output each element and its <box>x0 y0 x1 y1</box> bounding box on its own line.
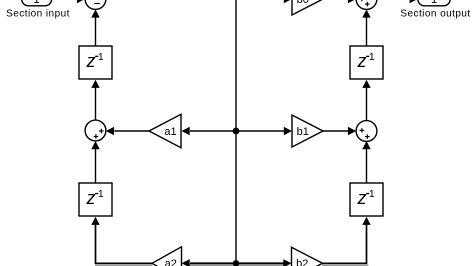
svg-text:Section output: Section output <box>400 9 470 20</box>
wire node W to a1 input <box>190 130 236 132</box>
outport block 1 (Section output) <box>418 0 450 6</box>
svg-text:b2: b2 <box>296 258 308 266</box>
svg-text:1: 1 <box>431 0 437 6</box>
svg-text:a1: a1 <box>164 126 176 138</box>
sum Sum4 (top right, ++) <box>356 0 377 9</box>
svg-text:z: z <box>86 188 96 208</box>
sign plus in Sum3 (left input) <box>360 129 365 131</box>
wire Z3 output up to Sum4 <box>366 17 368 46</box>
arrowhead into a1 input (base) <box>182 127 190 135</box>
arrowhead into Sum4 from b0 <box>348 0 356 3</box>
wire shadow band (bottom bus gray remnant) <box>95 264 153 266</box>
value label z^-1 in Z1 <box>86 51 104 71</box>
wire Z4 output up to Sum3 <box>366 149 368 183</box>
wire Z2 output up to Sum2 <box>95 149 97 183</box>
wire Sum3 output up to Z3 input <box>366 88 368 121</box>
wire node W to b1 input <box>236 130 284 132</box>
arrowhead into Sum2 from Z2 below <box>91 141 99 149</box>
arrowhead into a2 input (base) <box>182 259 190 266</box>
value label z^-1 in Z2 <box>86 188 104 208</box>
svg-text:b0: b0 <box>297 0 309 6</box>
sum Sum3 (right middle, ++) <box>356 121 377 142</box>
arrowhead into Sum1 from Z1 below <box>91 9 99 17</box>
wire Sum2 output up to Z1 input <box>95 88 97 121</box>
svg-text:Section input: Section input <box>6 9 70 20</box>
gain a2 (left-pointing triangle, bottom) <box>152 247 182 266</box>
inport block 1 (Section input) <box>22 0 52 6</box>
sign plus in Sum3 (bottom input) <box>365 136 370 138</box>
sign minus in Sum1 (bottom input) <box>94 3 100 5</box>
svg-text:z: z <box>357 51 367 71</box>
wire bottom node to a2 input <box>190 262 236 264</box>
sign plus in Sum4 (left input) <box>360 0 365 1</box>
svg-text:1: 1 <box>369 51 375 63</box>
svg-text:1: 1 <box>34 0 40 6</box>
svg-text:1: 1 <box>369 188 375 200</box>
arrowhead into Sum3 from Z4 below <box>362 141 370 149</box>
value label z^-1 in Z4 <box>357 188 375 208</box>
arrowhead into Z3 input (bottom) <box>362 80 370 88</box>
sum Sum1 (top left, +|-) <box>85 0 106 9</box>
node W junction dot (middle) <box>233 128 240 135</box>
value label z^-1 in Z3 <box>357 51 375 71</box>
unit delay Z2 (left lower z^-1) <box>79 183 112 216</box>
arrowhead into Z2 input (bottom) <box>91 217 99 225</box>
bottom node junction dot <box>233 260 239 266</box>
arrowhead into Sum1 from inport <box>77 0 85 3</box>
wire a2 output left and up to Z2 input <box>96 225 153 264</box>
wire node W main vertical line <box>235 0 237 263</box>
sign plus in Sum2 (right input) <box>99 130 104 132</box>
arrowhead into Sum4 from Z3 below <box>362 9 370 17</box>
arrowhead into Sum2 from a1 (right) <box>106 127 114 135</box>
wire b2 output right and up to Z4 input <box>323 225 367 264</box>
sign plus in Sum2 (bottom input) <box>94 136 99 138</box>
arrowhead into Z1 input (bottom) <box>91 80 99 88</box>
unit delay Z1 (left upper z^-1) <box>79 46 112 79</box>
svg-text:z: z <box>86 51 96 71</box>
wire Z1 output up to Sum1 <box>95 17 97 46</box>
arrowhead into Sum3 from b1 <box>348 127 356 135</box>
wire bottom node to b2 input <box>236 262 284 264</box>
gain b1 (right-pointing triangle) <box>292 115 323 147</box>
svg-text:a2: a2 <box>165 258 177 266</box>
sign plus in Sum4 (bottom input) <box>365 3 370 5</box>
gain b2 (right-pointing triangle, bottom) <box>292 247 323 266</box>
svg-text:z: z <box>357 188 367 208</box>
sum Sum2 (left middle, ++) <box>85 120 106 141</box>
arrowhead into b0 input (base) <box>284 0 292 3</box>
svg-text:1: 1 <box>98 188 104 200</box>
arrowhead into b2 input (base) <box>283 259 291 266</box>
arrowhead into b1 input (base) <box>284 127 292 135</box>
wire a1 output to Sum2 <box>114 130 149 132</box>
arrowhead into outport <box>410 0 418 3</box>
wire b1 output to Sum3 <box>323 130 348 132</box>
arrowhead into Z4 input (bottom) <box>362 217 370 225</box>
svg-text:1: 1 <box>98 51 104 63</box>
gain b0 (right-pointing triangle, top) <box>292 0 323 15</box>
gain a1 (left-pointing triangle) <box>149 114 181 147</box>
unit delay Z4 (right lower z^-1) <box>350 183 383 216</box>
unit delay Z3 (right upper z^-1) <box>350 46 383 79</box>
svg-text:b1: b1 <box>297 126 309 138</box>
